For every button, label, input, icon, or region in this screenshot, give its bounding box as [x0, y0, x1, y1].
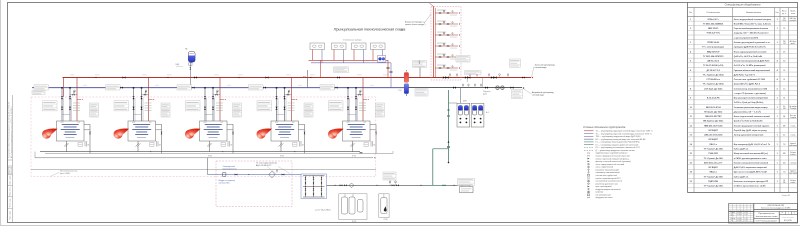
svg-text:КчП: КчП	[78, 122, 80, 124]
svg-text:системы ГВС: системы ГВС	[219, 183, 231, 185]
svg-text:К1 — трубопровод канализации с: К1 — трубопровод канализации самотечной …	[596, 146, 640, 149]
svg-text:технологическая схема: технологическая схема	[756, 216, 779, 218]
svg-text:1: 1	[777, 28, 778, 30]
svg-text:Поз.: Поз.	[689, 12, 693, 14]
svg-text:2150: 2150	[782, 20, 786, 22]
svg-text:ХВО: ХВО	[463, 101, 467, 103]
svg-text:Грязевик абонентский вертикаль: Грязевик абонентский вертикальный	[734, 69, 771, 72]
svg-text:Г2 — газопровод среднего давле: Г2 — газопровод среднего давления котель…	[596, 143, 639, 146]
svg-text:3: 3	[690, 42, 691, 44]
svg-text:Установка умягчения воды непре: Установка умягчения воды непрер.	[734, 107, 769, 109]
svg-text:АО «Газпром газораспределение»: АО «Газпром газораспределение» согл. №27…	[10, 106, 13, 158]
svg-text:7,50: 7,50	[783, 43, 786, 45]
svg-text:Принципиальная: Принципиальная	[759, 213, 775, 215]
svg-text:1,5: 1,5	[783, 88, 785, 90]
svg-text:Р: Р	[782, 213, 783, 215]
svg-text:ТУ «Сумма» Дм 16/6: ТУ «Сумма» Дм 16/6	[704, 158, 723, 160]
svg-text:1: 1	[777, 172, 778, 174]
svg-text:5,8: 5,8	[783, 61, 785, 63]
svg-text:1: 1	[777, 144, 778, 146]
svg-text:Q=65 м³/ч, Н=17,5 м, N=4,0 кВт: Q=65 м³/ч, Н=17,5 м, N=4,0 кВт	[734, 55, 763, 58]
svg-text:Т1 — трубопровод подающей сете: Т1 — трубопровод подающей сетевой воды о…	[596, 130, 654, 133]
svg-text:24: 24	[783, 79, 785, 81]
svg-text:Клапан электромагнитный газовы: Клапан электромагнитный газовый	[734, 161, 769, 164]
svg-text:продувочная свеча: продувочная свеча	[596, 197, 614, 199]
svg-text:рогобуж»: рогобуж»	[790, 20, 797, 22]
svg-text:в САПб; датчики давления и тем: в САПб; датчики давления и темп.	[734, 157, 768, 160]
svg-text:с боло-: с боло-	[790, 135, 796, 137]
svg-text:7,8: 7,8	[783, 144, 785, 146]
svg-text:26: 26	[783, 70, 785, 72]
svg-text:с боло-: с боло-	[790, 125, 796, 127]
svg-text:18: 18	[690, 172, 692, 174]
svg-text:Разраб.: Разраб.	[731, 212, 736, 214]
svg-text:Бак-сепаратор Ду50, V=0,12 м³: Бак-сепаратор Ду50, V=0,12 м³ на 1 Гк	[734, 143, 770, 146]
svg-text:КчП1: КчП1	[275, 122, 278, 124]
svg-text:Наименование: Наименование	[746, 12, 762, 14]
svg-text:Принципиальная технологическая: Принципиальная технологическая схема	[334, 28, 406, 32]
svg-text:95: 95	[783, 28, 785, 30]
svg-text:термометр показывающий: термометр показывающий	[596, 171, 620, 174]
svg-text:ИВ-Трубное Дм 16/2к: ИВ-Трубное Дм 16/2к	[703, 120, 723, 123]
svg-text:105: 105	[783, 162, 786, 164]
svg-text:1: 1	[777, 51, 778, 53]
svg-text:АВ 80-и 50-2: АВ 80-и 50-2	[707, 60, 719, 63]
svg-text:2: 2	[777, 88, 778, 90]
svg-text:2: 2	[690, 28, 691, 30]
svg-text:+ порог СО (в компл. с датчико: + порог СО (в компл. с датчиком)	[734, 93, 766, 95]
svg-text:13: 13	[690, 135, 692, 137]
svg-text:бак мембранный: бак мембранный	[596, 193, 611, 196]
svg-text:Клапан предохранительный пружи: Клапан предохранительный пружин.	[734, 124, 770, 127]
svg-text:КчП1: КчП1	[204, 122, 207, 124]
svg-text:ИУ ВЦ26Т: ИУ ВЦ26Т	[709, 139, 719, 141]
svg-text:КчП1: КчП1	[347, 122, 350, 124]
svg-text:10: 10	[690, 107, 692, 109]
svg-text:1: 1	[777, 107, 778, 109]
svg-text:НВФ-400-12-IP-1250: НВФ-400-12-IP-1250	[704, 124, 723, 127]
svg-text:5: 5	[690, 61, 691, 63]
svg-text:ГРЕЙС 40-60: ГРЕЙС 40-60	[707, 41, 719, 44]
svg-text:кровлю (свеча продув.): кровлю (свеча продув.)	[405, 24, 426, 26]
svg-text:Отопительные приборы: Отопительные приборы	[343, 39, 363, 41]
svg-text:1: 1	[690, 19, 691, 21]
svg-text:1: 1	[777, 42, 778, 44]
svg-text:34: 34	[783, 98, 785, 100]
svg-text:ТУ «Сумма» Дм 16/6: ТУ «Сумма» Дм 16/6	[704, 148, 723, 150]
svg-text:КчП1: КчП1	[61, 122, 64, 124]
svg-text:СО: СО	[399, 90, 402, 92]
svg-text:фильтр сетчатый магнитный (гря: фильтр сетчатый магнитный (грязевик)	[596, 160, 632, 163]
svg-text:ИВЦ 65/175-Р: ИВЦ 65/175-Р	[707, 51, 720, 53]
svg-text:счетчик газа турбинный: счетчик газа турбинный	[596, 174, 617, 177]
svg-text:КчП: КчП	[364, 122, 366, 124]
svg-text:СТГ-80-400 кгс: СТГ-80-400 кгс	[706, 78, 721, 81]
svg-text:НТЦ «ПБ»: НТЦ «ПБ»	[784, 220, 792, 222]
svg-text:1: 1	[777, 19, 778, 21]
svg-text:ДУ 65-16-Т 2,5: ДУ 65-16-Т 2,5	[707, 70, 721, 72]
svg-text:КчП: КчП	[149, 122, 151, 124]
svg-text:48: 48	[783, 51, 785, 53]
svg-text:Подп. и дата: Подп. и дата	[9, 211, 11, 220]
svg-text:1: 1	[777, 135, 778, 137]
svg-text:1: 1	[777, 181, 778, 183]
svg-text:Щит учета тепла Ду50, ВКТ-7 (т: Щит учета тепла Ду50, ВКТ-7 (те)Л	[734, 172, 768, 174]
svg-text:Затвор дисковый поворотный: Затвор дисковый поворотный	[734, 134, 764, 137]
svg-text:16: 16	[690, 162, 692, 164]
svg-text:сетевой воды: сетевой воды	[532, 94, 545, 97]
svg-text:ТУ 3631-004-05747979: ТУ 3631-004-05747979	[703, 55, 723, 58]
svg-text:А-1: А-1	[486, 111, 489, 114]
svg-text:задвижка (кран шаровой) запорн: задвижка (кран шаровой) запорная	[596, 152, 628, 155]
svg-text:Сигнализатор загазованности СН: Сигнализатор загазованности СН4	[734, 87, 768, 90]
svg-text:Котел водогрейный стальной сек: Котел водогрейный стальной секцион.	[734, 18, 772, 21]
svg-text:с блоком: с блоком	[790, 162, 797, 164]
svg-text:1 контур: 1 контур	[790, 108, 796, 110]
svg-text:V=100 л, Рраб до 6 бар (Reflex: V=100 л, Рраб до 6 бар (Reflex)	[734, 101, 764, 104]
svg-text:Т2 — трубопровод обратной сете: Т2 — трубопровод обратной сетевой воды о…	[596, 132, 653, 135]
svg-text:1: 1	[777, 125, 778, 127]
svg-text:G=12,5 м³/ч; 1,6 МПа, фланцевы: G=12,5 м³/ч; 1,6 МПа, фланцевый	[734, 64, 767, 67]
svg-text:0,25 ч; Ду57 об.: 0,25 ч; Ду57 об.	[734, 147, 749, 150]
svg-text:Т94 — трубопровод подпиточной: Т94 — трубопровод подпиточной воды Ду25 …	[596, 135, 641, 138]
svg-text:Н.контр.: Н.контр.	[731, 218, 737, 220]
svg-text:Вкл. при: Вкл. при	[790, 115, 796, 117]
svg-text:15: 15	[690, 153, 692, 155]
svg-text:т/удельн.: т/удельн.	[790, 171, 797, 173]
svg-text:12: 12	[690, 125, 692, 127]
svg-text:насос циркуляционный сетевой: насос циркуляционный сетевой	[596, 163, 624, 166]
svg-text:ООО «Теплоэнергопроект»: ООО «Теплоэнергопроект»	[756, 220, 778, 222]
svg-text:Шкаф котловой автоматики ВК (г: Шкаф котловой автоматики ВК (гл.)	[734, 152, 769, 155]
svg-text:Подп. и дата: Подп. и дата	[9, 176, 11, 185]
svg-text:Насос циркуляционный котловой: Насос циркуляционный котловой	[734, 50, 767, 53]
svg-text:кран трехходовой: кран трехходовой	[596, 185, 612, 188]
svg-text:Стадия Лист Листов: Стадия Лист Листов	[782, 217, 794, 219]
svg-text:КчП: КчП	[221, 122, 223, 124]
svg-text:Кол.: Кол.	[776, 12, 780, 14]
svg-text:485: 485	[783, 125, 786, 127]
svg-text:Счетчик газа турбинный СГ-16М: Счетчик газа турбинный СГ-16М	[734, 78, 765, 81]
svg-text:ИТМ1: ИТМ1	[352, 156, 356, 158]
svg-text:ИУ ВЦ26Т: ИУ ВЦ26Т	[709, 130, 719, 132]
svg-text:ТУ «Сумма» Дм 16/6: ТУ «Сумма» Дм 16/6	[704, 186, 723, 188]
svg-text:19: 19	[690, 181, 692, 183]
svg-text:Q=2,5 м³/ч; Н=32 м; N=0,55 кВт: Q=2,5 м³/ч; Н=32 м; N=0,55 кВт	[734, 120, 763, 123]
svg-text:В1 — трубопровод холодной воды: В1 — трубопровод холодной воды хоз.-пить…	[596, 138, 647, 141]
svg-text:в компл.: в компл.	[790, 154, 796, 156]
svg-text:Формат А1: Формат А1	[782, 194, 791, 197]
svg-text:в СКЗб и щиток биметалл. х2 кВ: в СКЗб и щиток биметалл. х2 кВт	[734, 185, 766, 188]
svg-text:ЛВН 1-о: ЛВН 1-о	[709, 144, 717, 146]
svg-text:чСН-Труб. Дм 16/2к: чСН-Труб. Дм 16/2к	[704, 87, 722, 90]
svg-text:Комплект огнезащиты проходок П: Комплект огнезащиты проходок ПЛ	[734, 181, 769, 183]
svg-text:ИТМ2: ИТМ2	[384, 219, 388, 221]
svg-text:чание: чание	[791, 13, 795, 15]
svg-text:Ду65 Ру16, Т до 150 °С: Ду65 Ру16, Т до 150 °С	[734, 74, 756, 76]
svg-text:40: 40	[783, 135, 785, 137]
svg-text:796: 796	[783, 18, 786, 20]
svg-text:«ГБЛ-2,4» ТУм: «ГБЛ-2,4» ТУм	[706, 32, 720, 35]
svg-text:11: 11	[690, 116, 692, 118]
svg-text:ТУ «Сумма» Дм 16/6: ТУ «Сумма» Дм 16/6	[704, 176, 723, 178]
svg-text:7,8: 7,8	[783, 172, 785, 174]
svg-text:клапан термозапорный КТЗ: клапан термозапорный КТЗ	[596, 177, 622, 180]
svg-text:1: 1	[788, 213, 789, 215]
svg-text:Ду80, Ру0,5; нормально закрыты: Ду80, Ру0,5; нормально закрытый	[734, 166, 768, 169]
svg-text:ИТМ1: ИТМ1	[208, 156, 212, 158]
svg-text:с щитом управления БУ6: с щитом управления БУ6	[734, 37, 758, 39]
svg-text:6: 6	[690, 70, 691, 72]
svg-text:Н2: Н2	[401, 30, 403, 32]
svg-text:Масса: Масса	[782, 11, 787, 13]
svg-text:Условные обозначения трубопров: Условные обозначения трубопроводов:	[583, 126, 626, 129]
svg-text:АНО-М-12-Об-я-177: АНО-М-12-Об-я-177	[704, 161, 722, 164]
svg-text:насос подпиточный: насос подпиточный	[596, 166, 614, 169]
svg-text:ТУ с электроприводом: ТУ с электроприводом	[702, 47, 724, 49]
svg-text:Qmax=400 м³/ч; Ду80; Ру1,6: Qmax=400 м³/ч; Ду80; Ру1,6	[734, 83, 760, 86]
svg-text:ТУ 4931-002-00288501: ТУ 4931-002-00288501	[703, 22, 724, 25]
svg-text:Рср=6,8 бар, Ду25, сброс на ул: Рср=6,8 бар, Ду25, сброс на улицу	[734, 129, 768, 132]
svg-text:ИТМ1: ИТМ1	[352, 221, 356, 223]
svg-text:N=2,0 МВт, Твых=115 °С, макс.: N=2,0 МВт, Твых=115 °С, макс. 6,25 атм	[734, 23, 772, 25]
svg-text:120: 120	[783, 108, 786, 110]
svg-text:240: 240	[783, 182, 786, 184]
svg-text:Насос подпиточный повысительны: Насос подпиточный повысительный	[734, 115, 771, 118]
svg-text:Спецификация оборудования: Спецификация оборудования	[725, 3, 761, 7]
svg-text:0,25 ч; Ду57 об.: 0,25 ч; Ду57 об.	[734, 175, 749, 178]
svg-text:Б-10-2,0-6-РБ: Б-10-2,0-6-РБ	[707, 98, 720, 100]
svg-text:сигнализатор загазованности: сигнализатор загазованности	[596, 181, 622, 183]
svg-text:1 подаче: 1 подаче	[790, 117, 796, 119]
svg-text:Дата: Дата	[747, 210, 750, 212]
svg-text:ГЦВП-УМ2: ГЦВП-УМ2	[708, 181, 718, 183]
svg-text:(отм. 0.000): (отм. 0.000)	[60, 173, 70, 175]
svg-text:ИВ-100-12-IP-54: ИВ-100-12-IP-54	[706, 106, 722, 109]
svg-text:НУ-Трубн. Дм 16/2к: НУ-Трубн. Дм 16/2к	[704, 110, 722, 113]
svg-text:Горелка комбинированная блочна: Горелка комбинированная блочная	[734, 27, 768, 30]
svg-text:Ду подбор: Ду подбор	[789, 106, 796, 108]
svg-text:ИВК 1251/1: ИВК 1251/1	[708, 28, 719, 30]
svg-text:регулятор давления газа: регулятор давления газа	[596, 183, 619, 185]
svg-text:1: 1	[777, 153, 778, 155]
svg-text:Бак расширительный мембранный: Бак расширительный мембранный	[734, 97, 769, 100]
svg-text:ИУ ВЦ267: ИУ ВЦ267	[709, 167, 718, 169]
svg-text:1: 1	[777, 98, 778, 100]
svg-text:модулир. 120 — 240 кВт, R-комп: модулир. 120 — 240 кВт, R-комплект	[734, 32, 769, 35]
svg-text:7: 7	[690, 79, 691, 81]
svg-text:КчП1: КчП1	[132, 122, 135, 124]
svg-text:1: 1	[777, 116, 778, 118]
svg-text:Рп/прав: Рп/прав	[790, 180, 796, 182]
svg-text:в кмпл.: в кмпл.	[790, 182, 796, 184]
svg-text:Клапан двухходовой седельный с: Клапан двухходовой седельный с эл.	[734, 41, 771, 44]
svg-text:ТУ г-Трубное Дм 16/2к: ТУ г-Трубное Дм 16/2к	[703, 73, 724, 76]
svg-text:1: 1	[777, 162, 778, 164]
svg-text:т/удельн.: т/удельн.	[790, 143, 797, 145]
svg-text:8: 8	[690, 88, 691, 90]
svg-text:ЛВЦ 1-о: ЛВЦ 1-о	[709, 172, 717, 174]
svg-text:АД-5.1/5.08.02.12: АД-5.1/5.08.02.12	[256, 164, 271, 167]
svg-text:Обозначение: Обозначение	[706, 12, 720, 14]
svg-text:ИТМ1: ИТМ1	[280, 156, 284, 158]
svg-text:Г1 — газопровод низкого давлен: Г1 — газопровод низкого давления Р=0,003…	[596, 142, 641, 144]
svg-text:9: 9	[690, 98, 691, 100]
svg-text:Д — дымоотвод продуктов сгоран: Д — дымоотвод продуктов сгорания котлов	[596, 150, 635, 152]
svg-text:КСВа-2,0 Гс: КСВа-2,0 Гс	[708, 19, 720, 21]
svg-text:Котельная блочно-модульная 10: Котельная блочно-модульная 10 МВт	[761, 208, 791, 210]
svg-text:Ду32: Ду32	[483, 93, 487, 95]
svg-text:двухколонная, 0,8 — 1,2 м³/ч: двухколонная, 0,8 — 1,2 м³/ч	[734, 110, 761, 113]
svg-text:Клапан балансировочный Ду50 Ру: Клапан балансировочный Ду50 Ру16	[734, 60, 770, 63]
svg-text:ТУ г-Трубное Дм 16/2к: ТУ г-Трубное Дм 16/2к	[703, 83, 724, 86]
svg-text:чИВ-ч20-Т2 25-1250: чИВ-ч20-Т2 25-1250	[704, 135, 722, 137]
svg-text:водонагреватель: водонагреватель	[223, 168, 237, 170]
svg-text:3,6: 3,6	[783, 106, 785, 108]
svg-text:воздухоотводчик автоматич.: воздухоотводчик автоматич.	[596, 189, 622, 191]
svg-text:ЧВК-6/10-55-ГРВ7: ЧВК-6/10-55-ГРВ7	[705, 116, 722, 118]
svg-text:сетевой воды: сетевой воды	[535, 66, 548, 69]
svg-text:клапан обратный поворотный фла: клапан обратный поворотный фланц.	[596, 157, 630, 160]
svg-text:манометр показывающий: манометр показывающий	[596, 168, 619, 171]
svg-text:клапан предохранительный сброс: клапан предохранительный сбросной	[596, 155, 630, 158]
svg-text:Приме-: Приме-	[790, 11, 796, 13]
svg-text:в узле ЗА-1 (НВ1): в узле ЗА-1 (НВ1)	[315, 208, 331, 211]
svg-text:ТУ 26-07-263-86 (тОЭ): ТУ 26-07-263-86 (тОЭ)	[703, 65, 724, 67]
svg-text:Рп/прав: Рп/прав	[790, 152, 796, 154]
svg-text:КчП: КчП	[292, 122, 294, 124]
svg-text:ГУАН-УМУ: ГУАН-УМУ	[708, 152, 718, 155]
svg-text:грязевик: грязевик	[596, 192, 604, 194]
svg-text:48: 48	[783, 180, 785, 182]
svg-text:ед., кг: ед., кг	[782, 13, 787, 15]
svg-text:приводом Ду40 Ру16, Kvs=25 м³/: приводом Ду40 Ру16, Kvs=25 м³/ч	[734, 46, 766, 49]
svg-text:485: 485	[783, 153, 786, 155]
svg-text:796: 796	[783, 41, 786, 43]
